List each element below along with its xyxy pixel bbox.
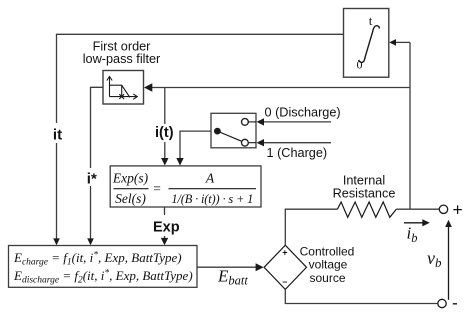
low-pass filter icon axes [107,77,112,97]
wire: ib branch into integrator input [395,41,410,43]
node i* label [84,168,98,187]
node Exp label [148,215,181,236]
Echarge function block U3 [9,246,198,288]
node i(t) label [152,124,176,142]
svg-text:source: source [309,271,345,285]
switch common pole dot [214,128,221,135]
switch lever [220,132,243,142]
svg-text:it: it [53,126,62,143]
wire: contact 1 stub [248,142,256,144]
svg-text:–: – [282,277,287,287]
svg-text:Exp(s): Exp(s) [112,171,149,186]
svg-text:-: - [452,293,458,313]
switch throw contact 0 [242,119,249,126]
node i* arrow into Echarge block [87,238,94,245]
arrow into filter input [144,83,152,91]
wire: Exp output down to Echarge block [164,207,166,240]
node it label [50,123,64,143]
switch throw contact 1 [242,139,249,146]
transfer function U2 box [110,166,261,207]
svg-text:0: 0 [357,58,363,72]
wire: charge constant input [262,142,331,144]
svg-text:1/(B · i(t)) · s + 1: 1/(B · i(t)) · s + 1 [171,192,253,206]
terminal - circle [438,299,446,307]
arrow Ebatt into controlled source [256,263,264,271]
svg-text:Resistance: Resistance [333,187,396,201]
wire: ib sense line up from circuit [409,42,411,209]
arrow Sel into transfer fcn [176,158,183,166]
arrow Exp into Echarge block [161,238,168,245]
svg-text:Exp: Exp [153,220,180,236]
wire: Ebatt output to controlled source [197,266,258,268]
switch SW1 box [211,113,256,148]
terminal + circle [439,205,447,213]
svg-text:+: + [453,199,463,219]
wire: i(t) tap from ib branch down to transfer fcn [164,88,166,160]
svg-text:t: t [369,13,373,28]
arrow i(t) into transfer fcn [161,158,168,166]
svg-text:=: = [153,181,161,196]
controlled voltage source E1 diamond [264,245,306,289]
wire: ib branch to filter input [150,87,410,89]
transfer function fraction bar left [114,188,149,190]
vb measurement arrow [448,225,450,300]
svg-text:Sel(s): Sel(s) [115,191,146,206]
wire: discharge constant input [262,121,331,123]
wire: top feedback line from integrator output to it line [57,34,344,239]
integrator integral sign [359,26,380,63]
low-pass filter icon cutoff x mark [119,94,124,99]
svg-text:A: A [205,171,215,186]
svg-text:+: + [282,248,287,258]
wire: source top to resistor and + terminal [285,209,337,245]
svg-text:low-pass filter: low-pass filter [83,52,161,66]
svg-text:1 (Charge): 1 (Charge) [267,146,328,160]
transfer function fraction bar right [169,188,257,190]
svg-text:i(t): i(t) [155,125,174,141]
low-pass filter icon response curve [110,85,130,97]
svg-text:Internal: Internal [343,174,385,188]
wire: source bottom to - terminal [285,289,438,303]
svg-text:voltage: voltage [309,258,348,272]
integrator U1 box [344,9,389,78]
wire: switch output Sel down to transfer fcn [180,131,211,159]
low-pass filter F1 box [103,71,144,105]
svg-text:Controlled: Controlled [300,245,355,259]
svg-text:i*: i* [87,170,97,187]
wire: filter output to i* line [91,87,104,239]
wire: contact 0 stub [248,121,256,123]
resistor R internal resistance zigzag [337,202,396,217]
node it arrow into Echarge block [53,238,60,245]
node ib current arrow [404,222,424,224]
svg-text:0 (Discharge): 0 (Discharge) [265,106,341,120]
wire: resistor to + terminal [396,208,439,210]
